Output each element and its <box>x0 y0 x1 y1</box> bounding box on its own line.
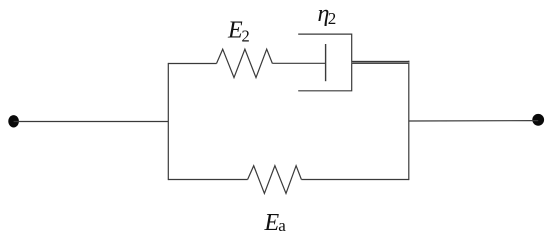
wire left vertical <box>167 63 169 180</box>
wire bottom-left <box>168 179 247 181</box>
dashpot piston plate <box>325 44 327 81</box>
dashpot cylinder <box>298 34 352 91</box>
svg-text:2: 2 <box>328 9 337 28</box>
resistor-style spring E2 <box>217 49 273 77</box>
right terminal dot <box>532 114 544 126</box>
left terminal dot <box>8 115 19 127</box>
wire right terminal <box>409 120 538 122</box>
wire dashpot to right (double line) <box>352 61 410 64</box>
svg-text:2: 2 <box>242 26 250 45</box>
svg-text:a: a <box>278 216 286 235</box>
svg-text:E: E <box>264 210 280 236</box>
wire bottom-right <box>301 179 408 181</box>
wire left terminal <box>14 121 169 123</box>
resistor-style spring Ea <box>248 166 302 194</box>
wire piston rod <box>272 62 325 64</box>
wire top-left <box>168 63 216 65</box>
wire right vertical <box>408 61 410 180</box>
